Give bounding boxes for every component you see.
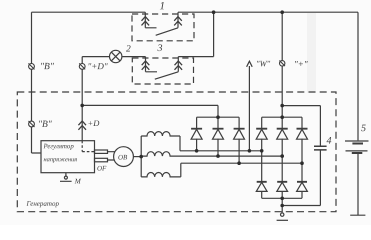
svg-text:ОВ: ОВ <box>118 154 128 162</box>
svg-text:"+D": "+D" <box>88 61 108 71</box>
svg-text:напряжения: напряжения <box>43 156 77 163</box>
svg-text:3: 3 <box>157 43 163 54</box>
svg-text:ОF: ОF <box>97 164 107 172</box>
svg-text:5: 5 <box>361 123 366 134</box>
svg-text:4: 4 <box>326 136 331 147</box>
svg-text:"В": "В" <box>38 120 53 130</box>
svg-text:Генератор: Генератор <box>25 200 59 208</box>
svg-text:+D: +D <box>87 118 100 128</box>
svg-text:2: 2 <box>126 44 131 54</box>
svg-text:1: 1 <box>160 0 166 12</box>
svg-text:"+": "+" <box>294 59 308 69</box>
svg-text:Регулятор: Регулятор <box>42 143 74 150</box>
svg-text:М: М <box>74 178 82 186</box>
svg-text:"W": "W" <box>256 58 271 68</box>
svg-text:"В": "В" <box>40 62 55 72</box>
